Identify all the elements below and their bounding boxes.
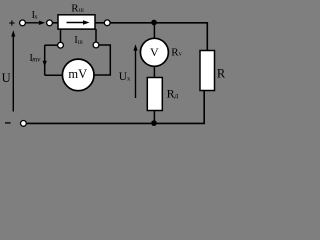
terminal T4	[21, 121, 27, 127]
wire corner to mV meter	[45, 74, 63, 76]
terminal T1	[20, 20, 26, 26]
svg-text:mV: mV	[68, 67, 87, 81]
wire V to Rd	[153, 66, 155, 78]
arrow inside Rsh	[67, 22, 85, 24]
voltmeter V circle	[140, 38, 168, 66]
svg-text:V: V	[150, 45, 159, 59]
wire T5 left to corner	[45, 44, 58, 46]
wire top rail with current arrow Ix	[25, 22, 40, 24]
svg-text:U: U	[2, 71, 11, 85]
node + (plus terminal label)	[9, 20, 14, 25]
wire T2 to Rsh box	[52, 22, 58, 24]
svg-text:ш: ш	[79, 7, 84, 14]
op mV meter circle	[62, 59, 94, 91]
resistor R box	[200, 51, 215, 91]
node junction J2 (bottom rail)	[151, 120, 157, 126]
resistor Rd box	[147, 78, 162, 111]
node junction J1 (voltmeter tap, top rail)	[151, 20, 157, 26]
svg-text:д: д	[175, 92, 179, 100]
svg-text:ш: ш	[78, 38, 83, 45]
resistor Rsh box	[58, 15, 95, 29]
terminal T2	[47, 20, 53, 26]
svg-text:v: v	[179, 52, 182, 58]
terminal T6	[93, 42, 99, 48]
wire stub Rsh to T5	[60, 29, 62, 42]
voltage arrow Ux	[135, 49, 137, 99]
terminal T5	[58, 42, 64, 48]
wire Rd to bottom rail	[153, 111, 155, 124]
node - (minus terminal label)	[5, 122, 11, 124]
svg-text:R: R	[217, 67, 226, 81]
wire stub Rsh to T6	[95, 29, 97, 42]
svg-text:R: R	[167, 86, 175, 100]
wire bottom rail	[26, 91, 204, 124]
terminal T3	[104, 20, 110, 26]
wire down with arrow ImV	[44, 45, 46, 75]
wire J1 down to voltmeter	[153, 23, 155, 39]
arrowhead Ix	[39, 21, 45, 25]
wire mV right to corner and up to T6	[94, 45, 111, 75]
voltage source arrow U	[12, 35, 14, 112]
wire T3 to top-right corner and down to R	[110, 23, 207, 51]
svg-text:mv: mv	[32, 56, 41, 64]
wire Rsh box to T3	[95, 22, 104, 24]
